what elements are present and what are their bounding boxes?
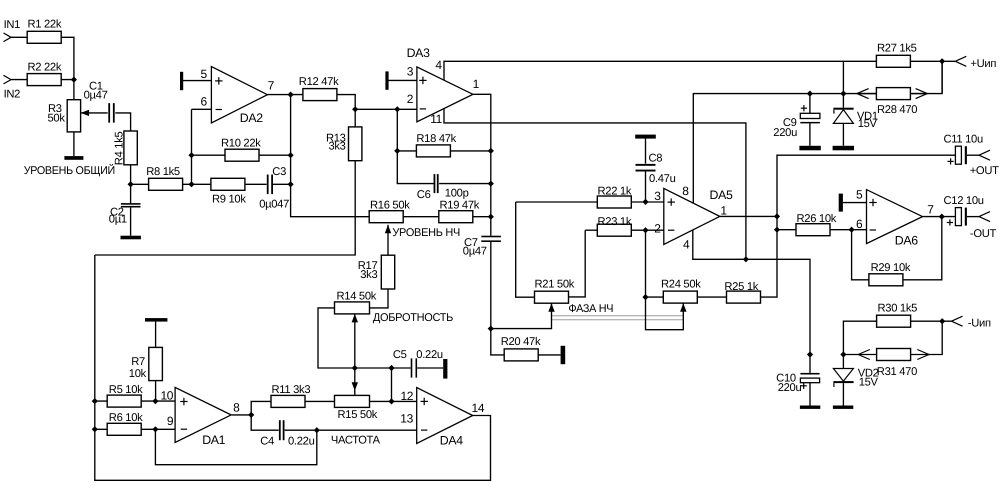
svg-text:R11 3k3: R11 3k3: [272, 384, 311, 396]
svg-text:13: 13: [400, 412, 413, 426]
svg-text:1: 1: [473, 77, 480, 91]
svg-text:100p: 100p: [445, 188, 469, 200]
svg-text:R24 50k: R24 50k: [661, 279, 701, 291]
svg-text:IN2: IN2: [4, 89, 21, 101]
svg-text:R28 470: R28 470: [877, 104, 917, 116]
svg-text:DA6: DA6: [895, 233, 918, 247]
svg-text:-Uип: -Uип: [968, 318, 991, 330]
svg-text:12: 12: [400, 389, 413, 403]
svg-text:R8 1k5: R8 1k5: [146, 166, 180, 178]
svg-text:0.22u: 0.22u: [416, 349, 443, 361]
svg-text:C3: C3: [272, 166, 286, 178]
svg-text:15V: 15V: [858, 118, 878, 130]
svg-text:R12 47k: R12 47k: [299, 76, 339, 88]
svg-text:R19 47k: R19 47k: [440, 200, 480, 212]
svg-text:R26 10k: R26 10k: [797, 213, 837, 225]
svg-text:3k3: 3k3: [328, 141, 345, 153]
svg-text:3: 3: [407, 65, 414, 79]
svg-text:0µ1: 0µ1: [109, 213, 127, 225]
svg-text:DA2: DA2: [240, 111, 263, 125]
svg-text:0µ47: 0µ47: [463, 246, 487, 258]
svg-text:2: 2: [407, 92, 414, 106]
svg-text:0.22u: 0.22u: [288, 435, 315, 447]
svg-text:R7: R7: [131, 356, 145, 368]
svg-text:R4 1k5: R4 1k5: [113, 131, 125, 165]
svg-text:6: 6: [201, 95, 208, 109]
svg-text:9: 9: [167, 414, 174, 428]
svg-text:ЧАСТОТА: ЧАСТОТА: [331, 435, 381, 447]
svg-text:10: 10: [160, 388, 173, 402]
svg-text:4: 4: [435, 58, 442, 72]
svg-text:6: 6: [856, 217, 863, 231]
svg-text:R6 10k: R6 10k: [109, 412, 143, 424]
svg-text:0µ47: 0µ47: [84, 90, 108, 102]
svg-text:R27 1k5: R27 1k5: [877, 43, 917, 55]
svg-text:7: 7: [927, 202, 934, 216]
svg-text:R5 10k: R5 10k: [109, 384, 143, 396]
svg-text:220u: 220u: [773, 127, 797, 139]
svg-text:C5: C5: [393, 349, 407, 361]
svg-text:R1 22k: R1 22k: [28, 19, 62, 31]
svg-text:R25 1k: R25 1k: [724, 281, 758, 293]
svg-text:C8: C8: [649, 153, 663, 165]
svg-text:DA5: DA5: [710, 188, 733, 202]
svg-text:R15 50k: R15 50k: [338, 409, 378, 421]
svg-text:R16 50k: R16 50k: [370, 200, 410, 212]
svg-text:-OUT: -OUT: [970, 228, 997, 240]
svg-text:IN1: IN1: [4, 19, 21, 31]
svg-text:R10 22k: R10 22k: [221, 138, 261, 150]
svg-text:C6: C6: [417, 189, 431, 201]
svg-text:R30 1k5: R30 1k5: [878, 303, 918, 315]
svg-text:ДОБРОТНОСТЬ: ДОБРОТНОСТЬ: [373, 312, 453, 324]
svg-text:R9 10k: R9 10k: [212, 194, 246, 206]
svg-text:C4: C4: [260, 435, 274, 447]
svg-text:R22 1k: R22 1k: [598, 185, 632, 197]
svg-text:2: 2: [654, 221, 661, 235]
svg-text:R14 50k: R14 50k: [337, 291, 377, 303]
svg-text:R21 50k: R21 50k: [535, 279, 575, 291]
svg-text:R23 1k: R23 1k: [598, 216, 632, 228]
svg-text:14: 14: [472, 401, 485, 415]
svg-text:DA3: DA3: [407, 46, 430, 60]
svg-text:3: 3: [654, 189, 661, 203]
svg-text:7: 7: [268, 79, 275, 93]
svg-text:УРОВЕНЬ НЧ: УРОВЕНЬ НЧ: [392, 227, 460, 239]
svg-text:15V: 15V: [859, 376, 879, 388]
svg-text:50k: 50k: [48, 112, 66, 124]
svg-text:8: 8: [682, 184, 689, 198]
svg-text:DA1: DA1: [202, 433, 225, 447]
svg-text:1: 1: [720, 204, 727, 218]
svg-text:R18 47k: R18 47k: [416, 133, 456, 145]
svg-text:5: 5: [201, 67, 208, 81]
svg-text:+Uип: +Uип: [970, 58, 996, 70]
svg-text:4: 4: [683, 238, 690, 252]
svg-text:11: 11: [430, 112, 442, 126]
svg-text:5: 5: [856, 187, 863, 201]
svg-text:0.47u: 0.47u: [649, 173, 676, 185]
svg-text:R29 10k: R29 10k: [871, 262, 911, 274]
svg-text:R20 47k: R20 47k: [501, 336, 541, 348]
svg-text:8: 8: [233, 400, 240, 414]
svg-text:C11 10u: C11 10u: [944, 134, 983, 146]
svg-text:R2 22k: R2 22k: [28, 62, 62, 74]
svg-text:C12 10u: C12 10u: [944, 195, 984, 207]
svg-text:УРОВЕНЬ ОБЩИЙ: УРОВЕНЬ ОБЩИЙ: [24, 163, 116, 177]
svg-text:ФАЗА НЧ: ФАЗА НЧ: [568, 303, 613, 315]
svg-text:DA4: DA4: [440, 433, 463, 447]
svg-text:0µ047: 0µ047: [259, 198, 289, 210]
svg-text:10k: 10k: [129, 368, 147, 380]
svg-text:+OUT: +OUT: [970, 165, 999, 177]
svg-text:220u: 220u: [778, 382, 802, 394]
svg-text:R31 470: R31 470: [877, 366, 917, 378]
svg-text:3k3: 3k3: [360, 269, 377, 281]
